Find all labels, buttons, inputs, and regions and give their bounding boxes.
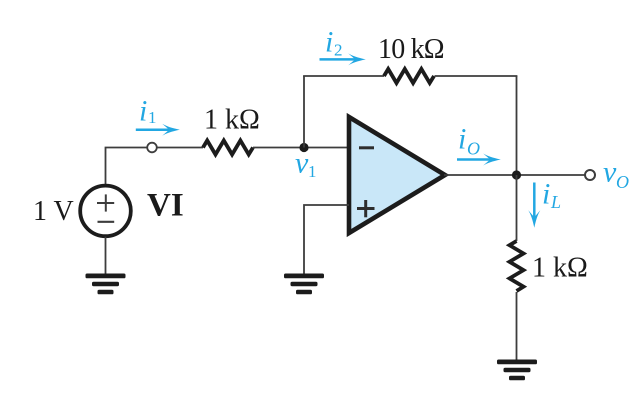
current arrow iL bbox=[528, 183, 540, 228]
current arrow i1 bbox=[136, 124, 180, 136]
current arrow i2 bbox=[320, 53, 366, 65]
wire: feedback top left bbox=[303, 75, 384, 77]
svg-text:VI: VI bbox=[147, 188, 184, 224]
op-amp minus input symbol bbox=[359, 146, 374, 149]
wire: node v1 up to feedback bbox=[303, 76, 305, 148]
svg-text:i: i bbox=[542, 178, 550, 211]
current arrow iO bbox=[457, 154, 501, 166]
node v1 junction dot bbox=[299, 143, 308, 152]
wire: source bottom to ground bbox=[105, 237, 107, 274]
ground (under load) bbox=[497, 360, 537, 381]
svg-text:i: i bbox=[458, 123, 466, 156]
resistor R2 10 kOhm (feedback) bbox=[384, 69, 434, 83]
svg-text:v: v bbox=[603, 156, 617, 189]
wire: R1 to op-amp inverting input through node v1 bbox=[253, 147, 349, 149]
svg-text:1 kΩ: 1 kΩ bbox=[532, 253, 588, 284]
minus sign in source bbox=[98, 221, 115, 223]
input terminal open circle bbox=[147, 143, 157, 153]
svg-text:10 kΩ: 10 kΩ bbox=[378, 34, 444, 65]
wire: feedback top right bbox=[435, 75, 518, 77]
wire: terminal to resistor R1 bbox=[157, 147, 203, 149]
svg-text:v: v bbox=[295, 147, 309, 180]
svg-text:1 V: 1 V bbox=[33, 196, 74, 227]
wire: output node down to load resistor bbox=[516, 175, 518, 241]
voltage source VI bbox=[80, 186, 131, 237]
resistor RL 1 kOhm (load, vertical) bbox=[510, 241, 524, 291]
wire: op-amp output to vO terminal bbox=[444, 174, 585, 176]
output terminal open circle bbox=[585, 170, 595, 180]
svg-text:i: i bbox=[325, 26, 333, 59]
wire: feedback right vertical down to output node bbox=[516, 76, 518, 175]
wire: load resistor to ground bbox=[516, 292, 518, 360]
svg-text:1: 1 bbox=[308, 162, 317, 181]
plus sign in source bbox=[97, 194, 114, 211]
svg-text:O: O bbox=[616, 172, 629, 192]
wire: plus input to ground bend bbox=[304, 205, 349, 274]
svg-text:1 kΩ: 1 kΩ bbox=[204, 105, 260, 136]
ground (at plus input) bbox=[284, 274, 324, 295]
resistor R1 1 kOhm bbox=[203, 141, 253, 155]
svg-text:1: 1 bbox=[148, 108, 157, 127]
svg-text:L: L bbox=[550, 192, 561, 212]
svg-text:O: O bbox=[467, 139, 480, 159]
node vO junction dot bbox=[512, 170, 521, 179]
svg-text:2: 2 bbox=[334, 41, 343, 60]
op-amp U1 bbox=[349, 117, 445, 233]
wire: source top to input terminal bbox=[106, 148, 148, 186]
ground (under source) bbox=[86, 274, 126, 295]
svg-text:i: i bbox=[139, 95, 147, 128]
op-amp plus input symbol bbox=[357, 200, 375, 217]
